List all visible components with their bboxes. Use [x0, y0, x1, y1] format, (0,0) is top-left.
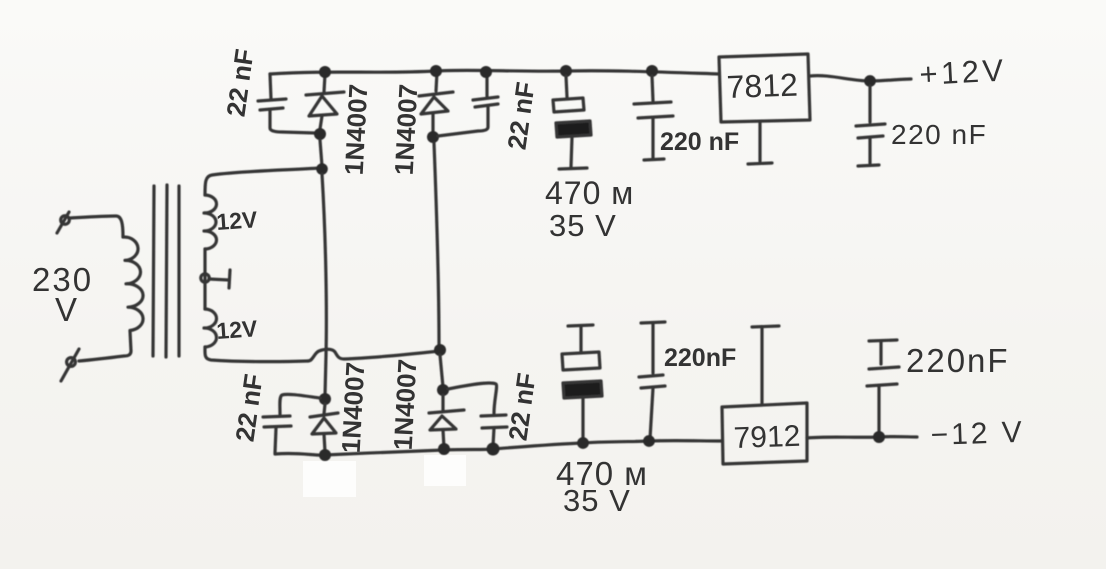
wire D4 to C4 [448, 383, 497, 413]
transformer primary input terminal bottom [61, 349, 79, 381]
value label 470u 35V bottom [556, 455, 648, 518]
svg-text:+12V: +12V [919, 52, 1008, 92]
node D1 anode [314, 128, 326, 140]
node D2 anode [427, 131, 439, 143]
node top rail D2 [430, 65, 442, 77]
svg-text:1N4007: 1N4007 [389, 83, 424, 176]
wire D3 to C3 [280, 394, 320, 414]
capacitor C4 22nF bottom-right [481, 415, 507, 446]
svg-text:1N4007: 1N4007 [336, 361, 371, 454]
wire AC B to D4 [440, 355, 443, 387]
node AC B bottom [434, 344, 446, 356]
node D3 anode rail [319, 449, 331, 461]
node top rail C5 [646, 65, 658, 77]
wire secondary bottom with hop [308, 349, 440, 361]
value label 230V [32, 261, 93, 328]
node top rail C9 [560, 65, 572, 77]
capacitor C1 22nF top-left [258, 74, 315, 133]
svg-text:35 V: 35 V [563, 483, 631, 518]
transformer secondary winding 12V top [204, 195, 217, 249]
capacitor C6 220nF output top [856, 86, 885, 166]
transformer primary input terminal top [57, 212, 69, 233]
node D3 cathode [319, 393, 331, 405]
svg-text:220nF: 220nF [664, 344, 736, 372]
svg-text:12V: 12V [216, 315, 259, 344]
transformer secondary winding 12V bottom [204, 309, 217, 347]
capacitor C10 470u electrolytic bottom [562, 325, 602, 441]
wire bottom rail [275, 441, 722, 456]
svg-text:470 м: 470 м [545, 175, 634, 211]
node output +12V [864, 75, 876, 87]
regulator U1 7812 [719, 54, 810, 164]
svg-text:−12 V: −12 V [930, 416, 1025, 452]
transformer core [153, 185, 179, 357]
svg-text:1N4007: 1N4007 [339, 83, 374, 176]
wire output -12V [807, 437, 917, 438]
node D4 anode rail [438, 443, 450, 455]
wire primary top lead [69, 216, 123, 237]
wire D1 anode down [320, 140, 322, 166]
node top rail D1 [319, 66, 331, 78]
diode D2 1N4007 [419, 72, 453, 134]
svg-text:7912: 7912 [733, 420, 801, 455]
node secondary top join [316, 163, 328, 175]
svg-text:35 V: 35 V [549, 208, 617, 243]
transformer primary winding 230V [123, 237, 143, 331]
wire secondary bottom lead [205, 347, 308, 362]
svg-text:V: V [55, 291, 77, 328]
wire secondary middle [203, 249, 206, 309]
wire output +12V [810, 76, 911, 81]
svg-text:220nF: 220nF [906, 342, 1010, 379]
wire AC line A [322, 174, 326, 396]
capacitor C8 220nF output bottom [867, 340, 899, 433]
transformer center tap [201, 270, 230, 288]
whiteout patch left [303, 461, 356, 497]
svg-text:220 nF: 220 nF [891, 119, 987, 150]
wire AC line B [434, 143, 439, 346]
whiteout patch right [424, 455, 466, 486]
wire primary bottom lead [79, 331, 131, 361]
node top rail C2 [480, 66, 492, 78]
svg-text:220 nF: 220 nF [660, 128, 739, 156]
svg-text:12V: 12V [216, 206, 259, 235]
wire top rail [270, 70, 719, 74]
capacitor C3 22nF bottom-left [263, 416, 291, 453]
diode D4 1N4007 [429, 395, 464, 448]
node D4 cathode [437, 384, 449, 396]
capacitor C2 22nF top-right [438, 73, 498, 136]
regulator U2 7912 [722, 326, 807, 464]
diode D3 1N4007 [310, 404, 338, 452]
node bottom rail C7 [643, 435, 655, 447]
diode D1 1N4007 [306, 74, 344, 129]
capacitor C9 470u electrolytic top [553, 76, 591, 169]
wire secondary top lead [205, 168, 320, 195]
svg-text:1N4007: 1N4007 [388, 358, 423, 451]
node bottom rail C10 [577, 437, 589, 449]
node output -12V [873, 431, 885, 443]
capacitor C7 220nF bottom [639, 322, 665, 439]
node C4 rail [487, 443, 500, 456]
value label 470u 35V top [545, 175, 634, 243]
capacitor C5 220nF top [634, 76, 673, 160]
svg-text:7812: 7812 [726, 67, 798, 105]
